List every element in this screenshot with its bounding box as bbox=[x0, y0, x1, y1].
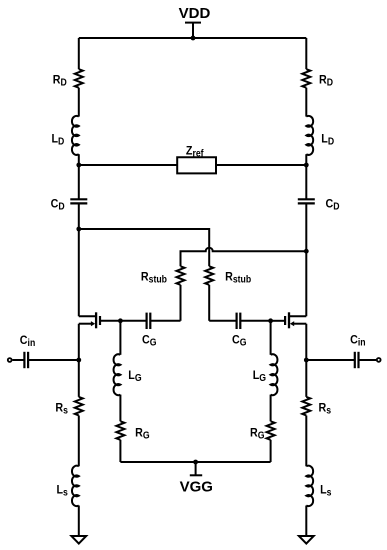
node Zref-rail left dot bbox=[76, 163, 81, 168]
capacitor CG right bbox=[237, 313, 241, 329]
VGG terminal bbox=[190, 462, 202, 475]
wire bbox=[359, 359, 377, 361]
node right input dot bbox=[304, 358, 309, 363]
svg-text:LD: LD bbox=[321, 133, 334, 147]
wire left source down bbox=[78, 324, 80, 397]
svg-text:CD: CD bbox=[326, 198, 340, 212]
wire bbox=[180, 285, 182, 321]
capacitor CD right bbox=[298, 199, 315, 203]
wire rail B (right drain to left stub) with hop bbox=[181, 248, 307, 267]
node left gate dot bbox=[118, 318, 123, 323]
inductor LG right bbox=[271, 354, 278, 395]
resistor Rs left bbox=[75, 397, 83, 416]
node left input dot bbox=[76, 358, 81, 363]
svg-text:LD: LD bbox=[52, 133, 65, 147]
inductor LD left bbox=[72, 116, 79, 155]
capacitor Cin right bbox=[355, 352, 359, 368]
wire rail A (left drain to right stub) bbox=[79, 229, 209, 266]
svg-text:RD: RD bbox=[319, 74, 333, 88]
wire bbox=[78, 154, 80, 199]
wire bbox=[305, 203, 307, 316]
node right gate dot bbox=[268, 318, 273, 323]
wire bbox=[119, 440, 121, 462]
capacitor Cin left bbox=[24, 352, 28, 368]
inductor LD right bbox=[306, 116, 313, 155]
wire bbox=[270, 440, 272, 462]
impedance Zref box bbox=[177, 157, 216, 173]
wire bbox=[306, 359, 355, 361]
svg-text:Ls: Ls bbox=[320, 484, 331, 498]
node railA left dot bbox=[76, 227, 81, 232]
svg-text:LG: LG bbox=[253, 369, 266, 383]
node railB right dot bbox=[304, 249, 309, 254]
VDD terminal bbox=[185, 23, 201, 38]
ground left bbox=[71, 536, 86, 544]
wire bbox=[78, 203, 80, 316]
wire bbox=[270, 395, 272, 422]
transistor M2 right bbox=[271, 312, 307, 328]
svg-text:RG: RG bbox=[250, 427, 264, 441]
wire bbox=[150, 320, 180, 322]
capacitor CD left bbox=[70, 199, 87, 203]
resistor Rstub left bbox=[177, 266, 185, 285]
resistor RD right bbox=[302, 69, 310, 87]
transistor M1 left bbox=[79, 312, 121, 328]
terminal input left bbox=[8, 358, 12, 362]
inductor Ls left bbox=[72, 466, 79, 506]
svg-text:VDD: VDD bbox=[179, 5, 211, 22]
node VDD junction dot bbox=[191, 36, 196, 41]
wire bottom rail bbox=[120, 461, 270, 463]
svg-text:Rstub: Rstub bbox=[141, 271, 167, 285]
wire top rail bbox=[79, 37, 306, 39]
inductor LG left bbox=[114, 354, 121, 395]
svg-text:RD: RD bbox=[53, 74, 67, 88]
wire left column top bbox=[78, 38, 80, 69]
wire right source down bbox=[305, 324, 307, 397]
svg-text:Cin: Cin bbox=[20, 334, 36, 348]
resistor Rstub right bbox=[205, 266, 213, 285]
ground right bbox=[299, 536, 314, 544]
svg-text:Rs: Rs bbox=[319, 402, 332, 416]
terminal input right bbox=[377, 358, 381, 362]
wire gate line right bbox=[240, 320, 270, 322]
svg-text:Rstub: Rstub bbox=[225, 271, 251, 285]
wire bbox=[305, 88, 307, 117]
wire left gate column down bbox=[119, 321, 121, 355]
resistor RG right bbox=[267, 421, 275, 440]
wire bbox=[305, 416, 307, 467]
svg-text:Rs: Rs bbox=[55, 402, 68, 416]
wire Zref rail right segment bbox=[216, 164, 306, 166]
wire right column top bbox=[305, 38, 307, 69]
resistor RG left bbox=[116, 421, 124, 440]
wire Zref rail left segment bbox=[79, 164, 177, 166]
wire bbox=[78, 506, 80, 537]
wire bbox=[209, 320, 236, 322]
svg-text:LG: LG bbox=[128, 369, 141, 383]
wire bbox=[12, 359, 24, 361]
wire bbox=[119, 395, 121, 422]
node Zref-rail right dot bbox=[304, 163, 309, 168]
svg-text:CG: CG bbox=[142, 334, 156, 348]
svg-text:Zref: Zref bbox=[186, 145, 204, 159]
resistor RD left bbox=[75, 69, 83, 87]
wire bbox=[208, 285, 210, 321]
svg-text:Ls: Ls bbox=[57, 484, 68, 498]
capacitor CG left bbox=[147, 313, 151, 329]
wire bbox=[305, 154, 307, 199]
svg-text:CG: CG bbox=[232, 334, 246, 348]
svg-text:RG: RG bbox=[135, 427, 149, 441]
svg-text:Cin: Cin bbox=[350, 334, 366, 348]
wire bbox=[78, 416, 80, 467]
wire bbox=[78, 88, 80, 117]
node VGG junction dot bbox=[193, 460, 198, 465]
resistor Rs right bbox=[302, 397, 310, 416]
wire gate line left bbox=[120, 320, 146, 322]
inductor Ls right bbox=[306, 466, 313, 506]
svg-text:VGG: VGG bbox=[180, 479, 213, 496]
svg-text:CD: CD bbox=[51, 198, 65, 212]
wire right gate column down bbox=[270, 321, 272, 355]
wire bbox=[28, 359, 79, 361]
wire bbox=[305, 506, 307, 537]
